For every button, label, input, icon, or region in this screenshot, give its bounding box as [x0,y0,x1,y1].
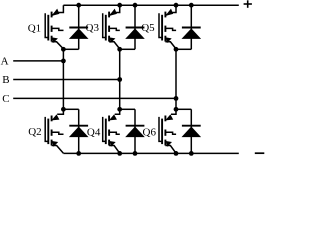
svg-text:Q1: Q1 [28,22,41,34]
svg-text:C: C [2,93,9,105]
wire: Q6 drain to D6 cathode [176,108,191,110]
label B [2,74,9,86]
svg-text:A: A [1,56,9,68]
node: D1 cathode on + rail [76,3,81,8]
diode D5 (anti-parallel with Q5) [182,5,202,49]
label Q1 [28,22,41,34]
diode D4 (anti-parallel with Q4) [125,109,145,153]
node: D2 anode on - rail [76,151,81,156]
wire: Q3 source to D3 anode [120,48,135,50]
label Q2 [28,126,41,138]
transistor Q1 (N-MOSFET, high side leg 1) [45,5,63,49]
wire: Q4 drain to D4 cathode [120,108,135,110]
wire: Q5 source to D5 anode [176,48,191,50]
transistor Q3 (N-MOSFET, high side leg 2) [103,5,120,49]
wire: phase column leg 1 [62,49,64,109]
wire: phase column leg 3 [175,49,177,109]
wire: + DC rail (top bus) [63,4,238,6]
node: Q6 source on - rail [174,151,179,156]
node: D5 cathode on + rail [189,3,194,8]
wire: Q2 drain to D2 cathode [63,108,78,110]
node: phase A junction [61,59,66,64]
diode D3 (anti-parallel with Q3) [125,5,145,49]
svg-text:Q3: Q3 [86,22,100,34]
label A [1,56,9,68]
diode D6 (anti-parallel with Q6) [182,109,202,153]
svg-text:Q2: Q2 [28,126,41,138]
node: Q5 drain / rail junction [174,3,179,8]
wire: phase B line [13,79,120,81]
wire: Q1 source to D1 anode [63,48,78,50]
svg-text:B: B [2,74,9,86]
node: phase leg 1 bottom junction [61,107,66,112]
node: phase leg 3 top junction [174,47,179,52]
svg-text:Q4: Q4 [87,126,101,138]
label Q3 [86,22,100,34]
transistor Q6 (N-MOSFET, low side leg 3) [159,109,176,153]
+ terminal label [244,0,252,8]
node: Q3 drain / rail junction [117,3,122,8]
diode D2 (anti-parallel with Q2) [69,109,89,153]
node: phase C junction [174,96,179,101]
label Q4 [87,126,101,138]
node: phase leg 2 top junction [117,47,122,52]
node: D4 anode on - rail [133,151,138,156]
transistor Q2 (N-MOSFET, low side leg 1) [45,109,63,153]
transistor Q4 (N-MOSFET, low side leg 2) [103,109,120,153]
node: Q4 source on - rail [117,151,122,156]
node: phase B junction [117,77,122,82]
- terminal label [255,152,264,154]
transistor Q5 (N-MOSFET, high side leg 3) [159,5,176,49]
wire: phase A line [13,60,63,62]
node: D3 cathode on + rail [133,3,138,8]
label Q6 [143,126,157,138]
node: phase leg 2 bottom junction [117,107,122,112]
wire: - DC rail (bottom bus) [63,152,238,154]
label Q5 [141,22,155,34]
svg-text:Q6: Q6 [143,126,157,138]
wire: phase C line [13,97,176,99]
node: D6 anode on - rail [189,151,194,156]
diode D1 (anti-parallel with Q1) [69,5,89,49]
node: phase leg 3 bottom junction [174,107,179,112]
svg-text:Q5: Q5 [141,22,155,34]
node: phase leg 1 top junction [61,47,66,52]
label C [2,93,9,105]
wire: phase column leg 2 [119,49,121,109]
